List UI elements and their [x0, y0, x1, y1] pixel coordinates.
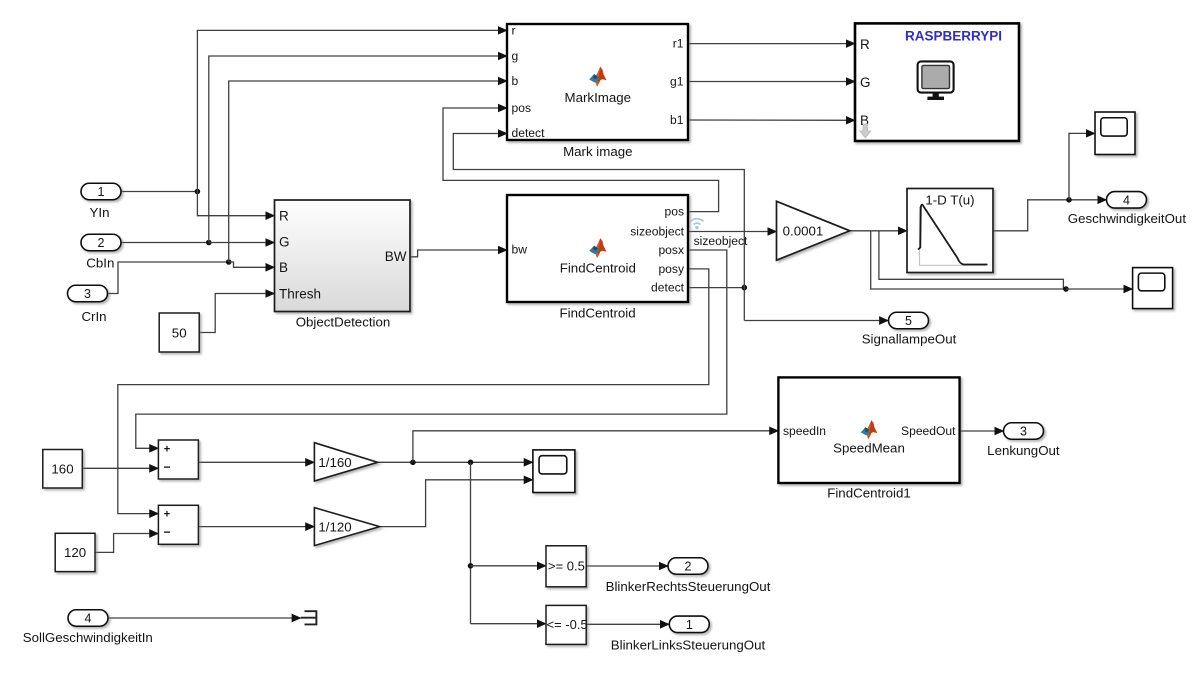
svg-text:2: 2 [685, 560, 692, 574]
svg-text:SignallampeOut: SignallampeOut [862, 332, 957, 347]
svg-text:B: B [279, 260, 288, 275]
svg-text:−: − [163, 525, 170, 539]
svg-text:R: R [860, 37, 870, 52]
svg-text:Thresh: Thresh [279, 286, 321, 301]
svg-text:b1: b1 [670, 113, 684, 127]
svg-text:pos: pos [512, 101, 532, 115]
svg-text:1-D T(u): 1-D T(u) [925, 192, 974, 207]
svg-text:pos: pos [665, 205, 685, 219]
svg-text:0.0001: 0.0001 [783, 224, 824, 239]
svg-text:sizeobject: sizeobject [630, 225, 684, 239]
svg-text:LenkungOut: LenkungOut [987, 443, 1060, 458]
svg-text:ObjectDetection: ObjectDetection [296, 314, 391, 329]
svg-text:+: + [164, 509, 170, 521]
svg-text:160: 160 [51, 462, 73, 477]
svg-text:r: r [512, 23, 516, 37]
svg-text:RASPBERRYPI: RASPBERRYPI [905, 29, 1002, 44]
svg-text:FindCentroid: FindCentroid [560, 305, 636, 320]
svg-text:BlinkerRechtsSteuerungOut: BlinkerRechtsSteuerungOut [606, 579, 771, 594]
svg-text:120: 120 [64, 545, 86, 560]
svg-text:4: 4 [85, 612, 92, 626]
svg-text:3: 3 [1020, 425, 1027, 439]
svg-text:1: 1 [98, 185, 105, 199]
svg-text:>= 0.5: >= 0.5 [548, 559, 585, 574]
svg-text:BW: BW [385, 249, 407, 264]
svg-text:r1: r1 [673, 37, 684, 51]
svg-text:R: R [279, 209, 289, 224]
svg-text:b: b [512, 74, 519, 88]
svg-text:bw: bw [512, 243, 528, 257]
svg-text:g: g [512, 49, 519, 63]
svg-text:CrIn: CrIn [81, 309, 106, 324]
svg-text:SollGeschwindigkeitIn: SollGeschwindigkeitIn [23, 630, 153, 645]
svg-text:G: G [279, 235, 290, 250]
svg-text:5: 5 [905, 314, 912, 328]
svg-text:posy: posy [658, 262, 684, 276]
svg-text:1: 1 [686, 618, 693, 632]
svg-text:detect: detect [512, 126, 546, 140]
svg-text:Mark image: Mark image [563, 144, 632, 159]
svg-text:detect: detect [651, 281, 685, 295]
svg-text:1/160: 1/160 [318, 455, 351, 470]
svg-text:CbIn: CbIn [86, 255, 114, 270]
svg-text:−: − [163, 460, 170, 474]
svg-text:BlinkerLinksSteuerungOut: BlinkerLinksSteuerungOut [611, 637, 766, 652]
svg-text:FindCentroid1: FindCentroid1 [827, 486, 911, 501]
svg-text:speedIn: speedIn [783, 424, 826, 438]
svg-text:sizeobject: sizeobject [694, 234, 748, 248]
svg-text:FindCentroid: FindCentroid [560, 260, 636, 275]
svg-text:4: 4 [1123, 193, 1130, 207]
svg-text:2: 2 [98, 236, 105, 250]
svg-text:+: + [164, 443, 170, 455]
svg-text:1/120: 1/120 [318, 520, 351, 535]
svg-text:posx: posx [658, 243, 684, 257]
svg-text:SpeedOut: SpeedOut [901, 424, 956, 438]
svg-text:SpeedMean: SpeedMean [833, 440, 905, 455]
svg-text:3: 3 [84, 287, 91, 301]
svg-text:MarkImage: MarkImage [565, 90, 632, 105]
svg-text:YIn: YIn [90, 205, 110, 220]
svg-text:50: 50 [172, 325, 187, 340]
svg-text:GeschwindigkeitOut: GeschwindigkeitOut [1068, 211, 1187, 226]
svg-text:g1: g1 [670, 75, 684, 89]
svg-text:<= -0.5: <= -0.5 [547, 617, 588, 632]
svg-text:G: G [860, 75, 871, 90]
